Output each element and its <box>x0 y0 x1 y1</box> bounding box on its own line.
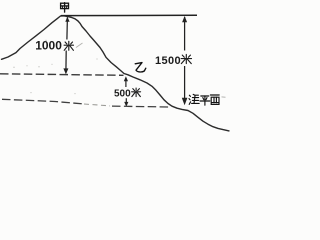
1500m measure arrow (vertical, arrowheads both ends) <box>182 16 188 105</box>
svg-text:1500: 1500 <box>155 55 181 67</box>
faint scan smudge right of 1000米 <box>76 43 83 48</box>
500m measure arrows (two short verticals between levels) <box>124 76 129 107</box>
label 海平面 (sea level) <box>189 94 219 105</box>
1000m measure arrow (vertical, arrowheads both ends) <box>63 17 69 75</box>
label 500米 <box>114 88 141 100</box>
label 1000米 <box>35 39 73 53</box>
label 乙 (point on slope) <box>135 63 146 72</box>
sea level dashed line <box>2 99 170 107</box>
面 <box>210 94 219 96</box>
label 甲 (peak name) <box>61 3 69 12</box>
海 <box>189 95 190 96</box>
faint scan tick right of 海平面 <box>222 96 226 98</box>
label 1500米 <box>155 55 192 68</box>
dashed line: elevation level of point 乙 <box>0 74 124 76</box>
平 <box>201 95 209 97</box>
summit level line <box>61 14 197 16</box>
svg-text:500: 500 <box>114 89 131 100</box>
faint scan speckles (decorative) <box>13 40 97 94</box>
mountain profile (terrain line from left edge over peak down to sea) <box>2 16 230 131</box>
svg-text:1000: 1000 <box>35 39 62 53</box>
